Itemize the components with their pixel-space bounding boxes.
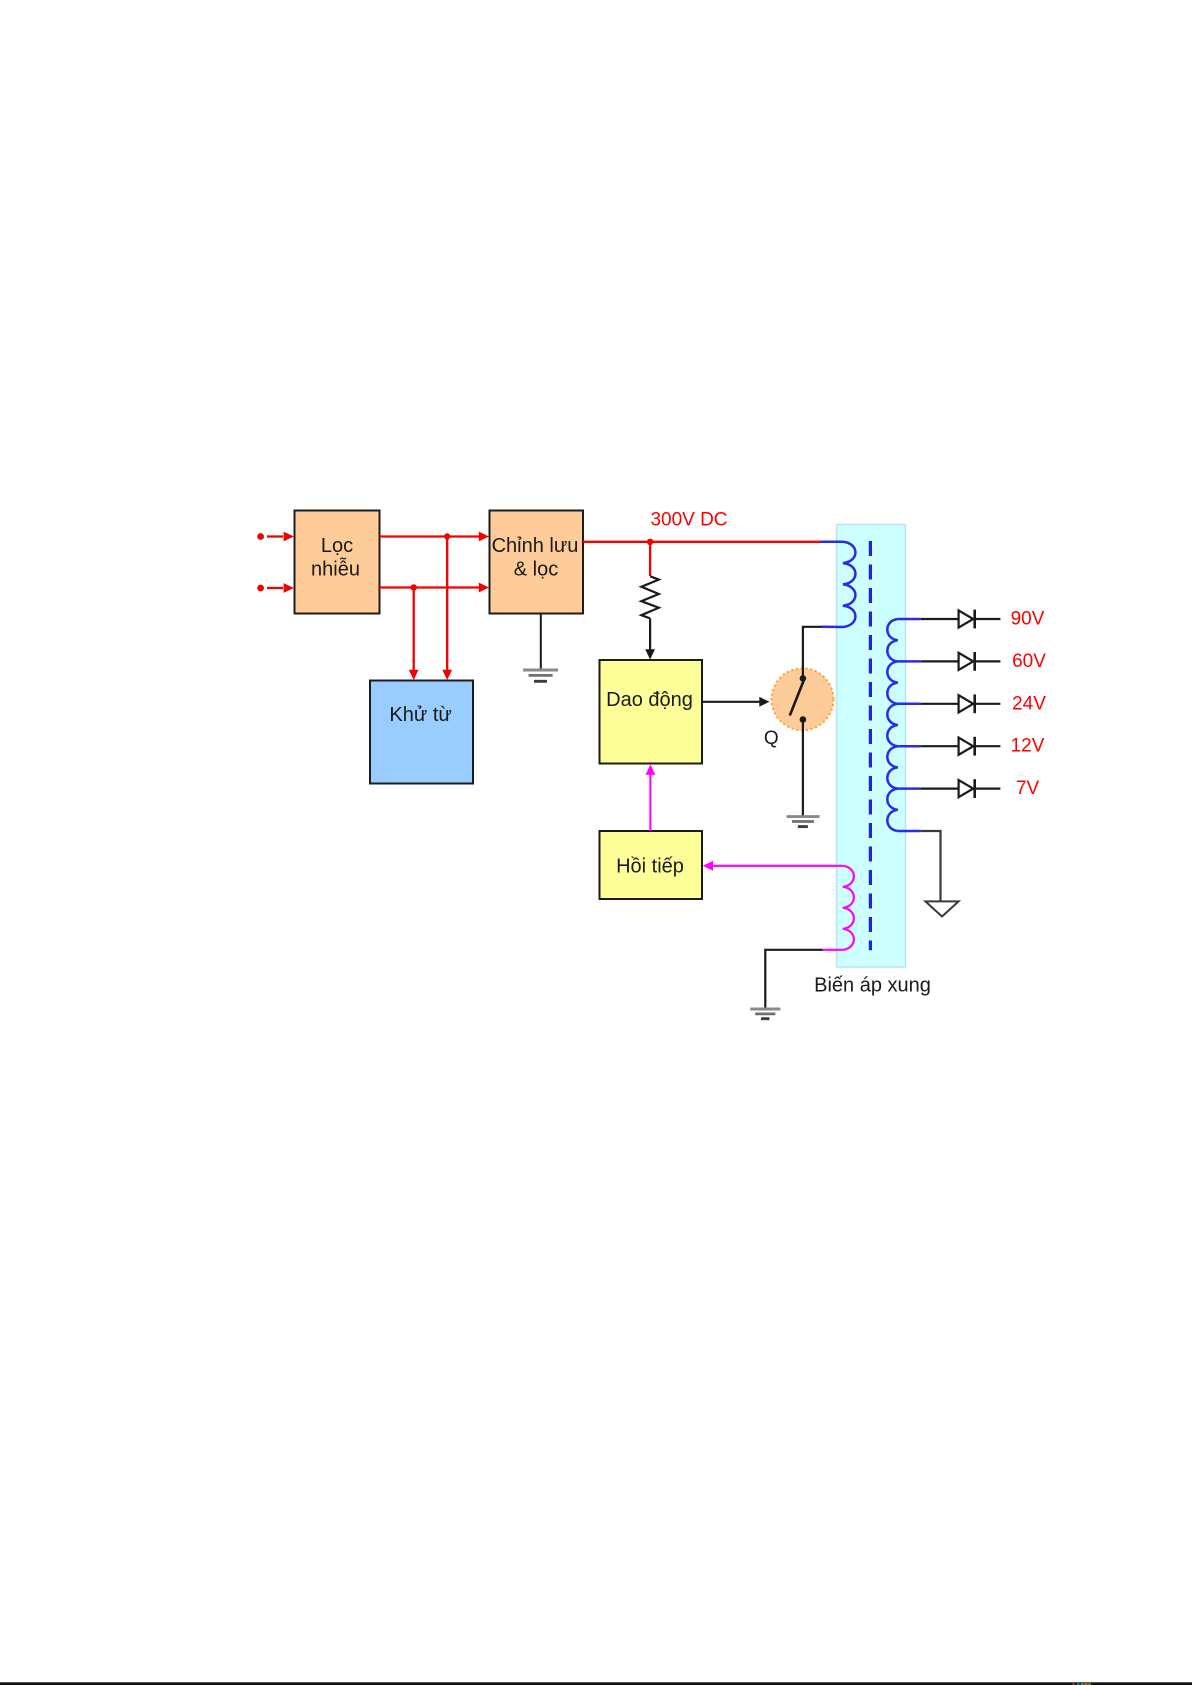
node junction on top wire <box>444 533 450 539</box>
svg-text:90V: 90V <box>1011 609 1045 630</box>
wire Dao động to transistor Q <box>702 697 770 707</box>
svg-text:nhiễu: nhiễu <box>311 557 360 580</box>
wire junction down to resistor <box>649 542 651 576</box>
svg-text:Lọc: Lọc <box>321 535 353 557</box>
transformer core dashed line <box>869 541 872 950</box>
node junction on 300V rail <box>647 539 653 545</box>
wire Lọc nhiễu to Chỉnh lưu bottom <box>380 583 490 593</box>
tertiary winding <box>823 866 854 950</box>
secondary tap stubs <box>898 619 921 831</box>
svg-text:Dao động: Dao động <box>606 689 693 711</box>
block Lọc nhiễu <box>295 511 380 614</box>
secondary winding <box>887 619 898 831</box>
ground under tertiary <box>750 1009 780 1019</box>
resistor <box>641 576 659 618</box>
svg-text:Q: Q <box>764 728 779 749</box>
wire secondary return to chassis ground <box>921 831 941 901</box>
wire junction down to Khử từ (right) <box>442 537 452 681</box>
AC input dashed arrow 2 <box>257 583 294 593</box>
block Hồi tiếp <box>600 831 703 899</box>
block Dao động <box>600 660 703 764</box>
feedback wire from tertiary winding to Hồi tiếp <box>703 861 843 871</box>
AC input dashed arrow 1 <box>257 532 294 542</box>
block Chỉnh lưu & lọc <box>490 511 584 614</box>
output 12V: wire, diode, label <box>921 737 1001 756</box>
primary winding <box>821 542 856 627</box>
wire Lọc nhiễu to Chỉnh lưu top <box>380 532 490 542</box>
node junction on bottom wire <box>411 584 417 590</box>
wire Q collector to primary winding <box>803 627 822 678</box>
svg-text:Chỉnh lưu: Chỉnh lưu <box>492 535 579 557</box>
svg-text:12V: 12V <box>1011 736 1045 757</box>
svg-text:Biến áp xung: Biến áp xung <box>814 975 931 997</box>
tiny watermark pixels <box>1073 1683 1092 1685</box>
wire junction down to Khử từ (left) <box>409 588 419 681</box>
feedback arrow Hồi tiếp to Dao động <box>646 765 656 832</box>
svg-text:24V: 24V <box>1012 693 1046 714</box>
transistor Q (switch symbol) <box>772 668 834 730</box>
output 60V: wire, diode, label <box>921 652 1001 671</box>
wire tertiary to ground <box>765 950 822 1009</box>
output 7V: wire, diode, label <box>921 779 1001 798</box>
wire resistor to Dao động <box>645 618 655 659</box>
block Khử từ <box>370 681 473 784</box>
wire Q emitter to ground <box>802 720 804 817</box>
transformer core box Biến áp xung <box>837 525 906 968</box>
svg-text:Hồi tiếp: Hồi tiếp <box>616 855 684 877</box>
ground under Chỉnh lưu <box>523 614 558 682</box>
bottom page rule <box>0 1682 1192 1685</box>
svg-text:300V DC: 300V DC <box>650 509 727 530</box>
output 24V: wire, diode, label <box>921 694 1001 713</box>
chassis ground triangle <box>925 901 958 916</box>
svg-text:Khử từ: Khử từ <box>389 704 451 726</box>
svg-text:& lọc: & lọc <box>514 559 558 581</box>
wire 300V DC rail <box>583 541 821 543</box>
output 90V: wire, diode, label <box>921 610 1001 629</box>
svg-text:60V: 60V <box>1012 651 1046 672</box>
svg-text:7V: 7V <box>1016 778 1040 799</box>
ground under Q <box>787 817 820 827</box>
